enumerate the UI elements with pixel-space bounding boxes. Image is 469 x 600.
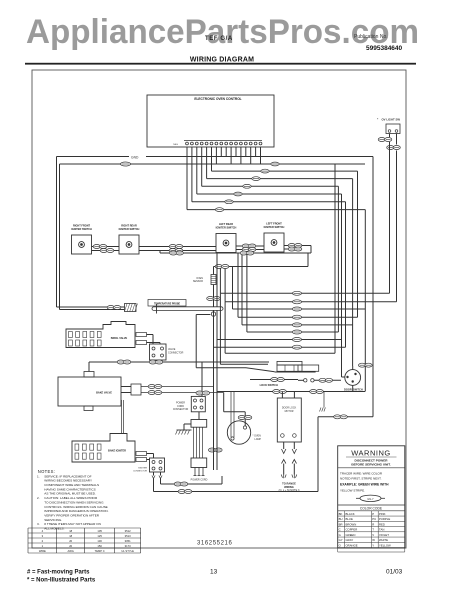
svg-text:R: R bbox=[372, 522, 374, 526]
svg-text:PINK: PINK bbox=[379, 512, 386, 516]
svg-text:01/03: 01/03 bbox=[386, 569, 403, 576]
svg-text:Publication No.: Publication No. bbox=[354, 34, 388, 40]
svg-text:150: 150 bbox=[97, 544, 102, 548]
svg-text:20: 20 bbox=[69, 539, 72, 543]
svg-text:4: 4 bbox=[42, 529, 44, 533]
svg-text:YELLOW STRIPE.: YELLOW STRIPE. bbox=[340, 489, 365, 493]
svg-text:AppliancePartsPros.com: AppliancePartsPros.com bbox=[26, 13, 419, 51]
svg-text:2: 2 bbox=[42, 539, 44, 543]
svg-text:CONNECTOR: CONNECTOR bbox=[173, 408, 189, 411]
svg-text:BROWN: BROWN bbox=[346, 522, 357, 526]
svg-text:COPPER: COPPER bbox=[346, 528, 358, 532]
svg-text:GREEN: GREEN bbox=[346, 533, 356, 537]
svg-text:2.: 2. bbox=[37, 496, 40, 500]
svg-text:WIRE: WIRE bbox=[39, 549, 46, 553]
svg-text:# = Fast-moving Parts: # = Fast-moving Parts bbox=[27, 570, 90, 576]
svg-text:BLUE: BLUE bbox=[346, 517, 353, 521]
svg-text:3: 3 bbox=[42, 534, 44, 538]
svg-text:ELECTRONIC OVEN CONTROL: ELECTRONIC OVEN CONTROL bbox=[194, 97, 241, 101]
svg-text:ORANGE: ORANGE bbox=[346, 543, 358, 547]
svg-text:BROIL VALVE: BROIL VALVE bbox=[111, 337, 128, 340]
svg-text:5995384640: 5995384640 bbox=[366, 45, 403, 52]
svg-text:W: W bbox=[372, 538, 375, 542]
svg-text:ALL MODELS.: ALL MODELS. bbox=[44, 527, 64, 531]
svg-text:18: 18 bbox=[69, 534, 72, 538]
svg-text:NEG: NEG bbox=[173, 144, 178, 146]
svg-text:TRACER WIRE: WIRE COLOR: TRACER WIRE: WIRE COLOR bbox=[340, 472, 383, 476]
svg-text:NOTES:: NOTES: bbox=[38, 469, 55, 474]
svg-text:*: * bbox=[377, 118, 379, 122]
svg-text:13: 13 bbox=[210, 569, 218, 576]
svg-text:BU: BU bbox=[339, 517, 343, 521]
svg-text:AWG: AWG bbox=[68, 549, 74, 553]
svg-text:IGNITER SWITCH: IGNITER SWITCH bbox=[264, 226, 285, 229]
svg-text:DOOR SWITCH: DOOR SWITCH bbox=[344, 388, 363, 392]
svg-text:UL STYLE: UL STYLE bbox=[121, 549, 134, 553]
svg-text:125: 125 bbox=[97, 534, 102, 538]
svg-text:316255216: 316255216 bbox=[197, 541, 232, 547]
svg-text:(O, L + N) NOTE 3: (O, L + N) NOTE 3 bbox=[279, 489, 300, 492]
svg-text:POWER CORD: POWER CORD bbox=[191, 479, 208, 482]
svg-text:C: C bbox=[339, 528, 341, 532]
svg-text:PURPLE: PURPLE bbox=[379, 517, 390, 521]
svg-text:COLOR CODE: COLOR CODE bbox=[360, 506, 383, 510]
svg-text:IGNITER SWITCH: IGNITER SWITCH bbox=[216, 227, 237, 230]
svg-text:3173: 3173 bbox=[125, 544, 131, 548]
svg-text:105: 105 bbox=[97, 529, 102, 533]
svg-text:RED: RED bbox=[379, 522, 385, 526]
svg-text:LOCK SWITCH: LOCK SWITCH bbox=[260, 383, 278, 387]
svg-text:1: 1 bbox=[42, 544, 44, 548]
svg-text:CONNECTOR: CONNECTOR bbox=[168, 351, 184, 354]
svg-text:* = Non-Illustrated Parts: * = Non-Illustrated Parts bbox=[27, 578, 96, 584]
svg-text:IGNITER: IGNITER bbox=[138, 468, 147, 470]
svg-text:GN-Y: GN-Y bbox=[367, 497, 374, 501]
svg-text:SENSOR: SENSOR bbox=[193, 280, 203, 283]
svg-text:T: T bbox=[372, 528, 374, 532]
svg-text:PU: PU bbox=[372, 517, 376, 521]
svg-text:GND: GND bbox=[131, 155, 139, 159]
svg-text:GRAY: GRAY bbox=[346, 538, 354, 542]
svg-text:EXAMPLE: GREEN WIRE WITH: EXAMPLE: GREEN WIRE WITH bbox=[340, 483, 389, 487]
svg-text:VIOLET: VIOLET bbox=[379, 533, 389, 537]
svg-text:P: P bbox=[372, 512, 374, 516]
svg-text:20: 20 bbox=[69, 544, 72, 548]
svg-text:YELLOW: YELLOW bbox=[379, 543, 391, 547]
svg-text:WHITE: WHITE bbox=[379, 538, 388, 542]
svg-text:IGNITER SWITCH: IGNITER SWITCH bbox=[119, 228, 140, 231]
svg-text:CONNECTOR: CONNECTOR bbox=[133, 471, 147, 473]
svg-text:TEMPERATURE PROBE: TEMPERATURE PROBE bbox=[154, 302, 181, 305]
svg-text:TEF G/A: TEF G/A bbox=[205, 36, 233, 42]
svg-text:MOTOR: MOTOR bbox=[285, 410, 294, 413]
svg-text:GY: GY bbox=[339, 538, 343, 542]
svg-text:LAMP: LAMP bbox=[255, 438, 262, 441]
svg-text:Y: Y bbox=[372, 543, 374, 547]
svg-text:BLACK: BLACK bbox=[346, 512, 355, 516]
svg-text:18: 18 bbox=[69, 529, 72, 533]
svg-text:OV LIGHT SW: OV LIGHT SW bbox=[382, 118, 401, 122]
svg-text:BR: BR bbox=[339, 522, 343, 526]
svg-text:O: O bbox=[339, 543, 342, 547]
svg-text:130: 130 bbox=[97, 539, 102, 543]
svg-text:V: V bbox=[372, 533, 374, 537]
svg-text:NOTED FIRST, STRIPE NEXT.: NOTED FIRST, STRIPE NEXT. bbox=[340, 476, 382, 480]
svg-text:3051: 3051 bbox=[125, 539, 131, 543]
svg-text:IGNITER SWITCH: IGNITER SWITCH bbox=[71, 228, 92, 231]
svg-text:3.: 3. bbox=[37, 522, 40, 526]
svg-text:TAN: TAN bbox=[379, 528, 384, 532]
svg-text:TEMP C: TEMP C bbox=[95, 549, 105, 553]
svg-text:WIRING: WIRING bbox=[284, 485, 294, 489]
svg-text:3512: 3512 bbox=[125, 529, 131, 533]
svg-text:1.: 1. bbox=[37, 474, 40, 478]
svg-text:3513: 3513 bbox=[125, 534, 131, 538]
svg-text:BEFORE SERVICING UNIT.: BEFORE SERVICING UNIT. bbox=[351, 462, 390, 466]
svg-text:BAKE IGNITER: BAKE IGNITER bbox=[108, 450, 126, 453]
svg-text:WIRING DIAGRAM: WIRING DIAGRAM bbox=[190, 57, 254, 64]
svg-text:WARNING: WARNING bbox=[351, 449, 390, 458]
svg-text:TO RANGE: TO RANGE bbox=[282, 481, 296, 485]
svg-text:G: G bbox=[339, 533, 341, 537]
svg-text:BAKE VALVE: BAKE VALVE bbox=[96, 392, 112, 395]
svg-text:BK: BK bbox=[339, 512, 343, 516]
